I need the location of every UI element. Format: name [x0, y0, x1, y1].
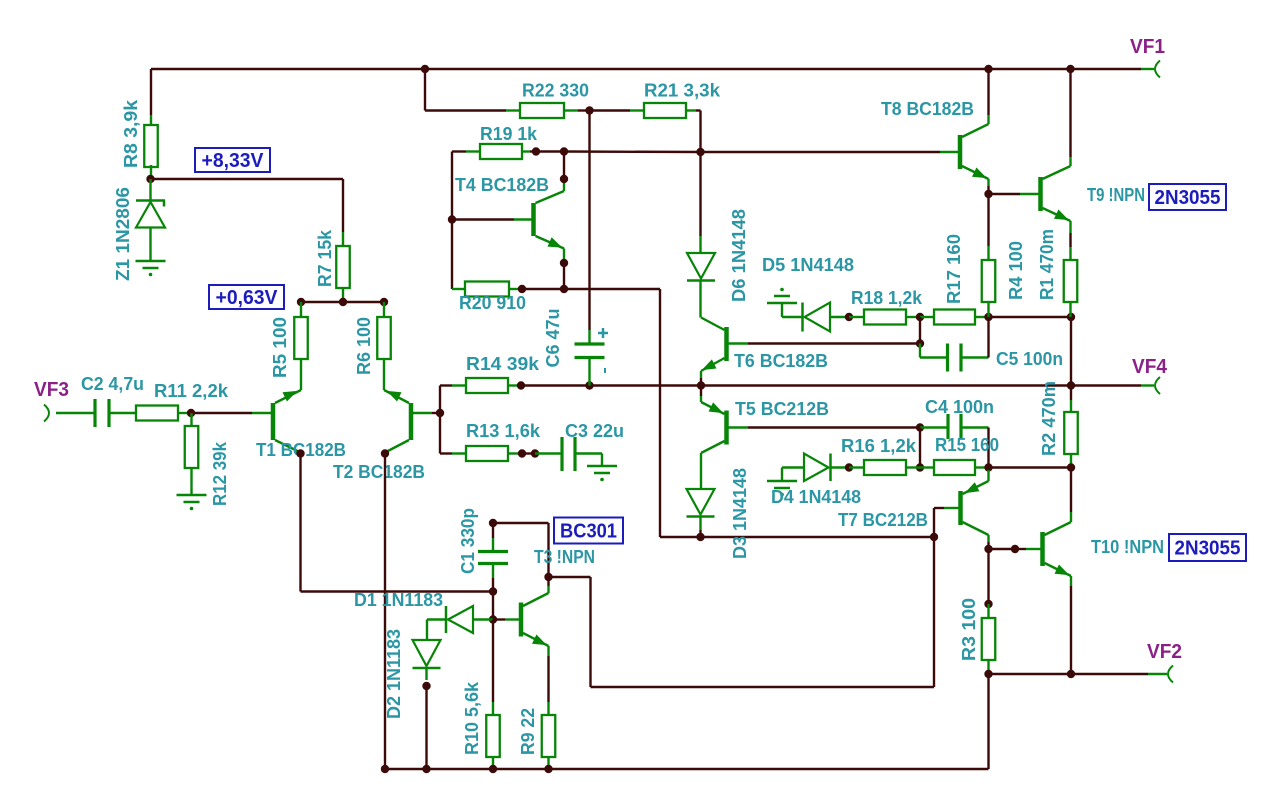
R16 [864, 460, 906, 475]
D5 pin dot [845, 313, 853, 321]
junction T2 base [436, 409, 444, 417]
R7 [336, 246, 350, 288]
svg-text:D1 1N1183: D1 1N1183 [354, 590, 443, 610]
wire R3 column [987, 549, 989, 604]
wire to T1 base [191, 412, 252, 414]
D4 ground [767, 480, 797, 483]
wire R21 corner down [696, 109, 701, 111]
svg-text:C3 22u: C3 22u [565, 421, 624, 441]
wire R4 column from T8/T9 node [987, 194, 989, 246]
junction D2 bottom row [422, 765, 430, 773]
T9 collector lead [1069, 157, 1071, 166]
svg-text:VF1: VF1 [1130, 36, 1165, 58]
junction D3 bottom [696, 533, 704, 541]
capacitor C6 47u electrolytic [575, 342, 605, 345]
svg-text:R3 100: R3 100 [959, 598, 979, 661]
T5 base junction C4 [916, 423, 924, 431]
capacitor C1 330p [489, 519, 497, 527]
junction D1 T3 base R10 [489, 615, 497, 623]
R12 ground [177, 494, 207, 497]
R19 [480, 144, 522, 159]
svg-text:T6 BC182B: T6 BC182B [734, 351, 828, 371]
R4 [982, 260, 996, 302]
T6 base wire [748, 342, 920, 344]
T10 emitter lead [1070, 576, 1072, 586]
R1 [1064, 260, 1078, 302]
svg-text:R15 160: R15 160 [935, 435, 999, 455]
D2 bottom pin dot [422, 682, 430, 690]
wire to R21 [590, 109, 631, 111]
svg-text:R5 100: R5 100 [270, 317, 290, 378]
svg-text:2N3055: 2N3055 [1155, 187, 1221, 209]
D4 pin dot [845, 463, 853, 471]
junction T2 collector [381, 449, 389, 457]
label box BC301 [554, 518, 623, 544]
transistor T6 BC182B [724, 327, 729, 361]
R12 39k [185, 426, 199, 468]
svg-text:R12 39k: R12 39k [210, 441, 230, 506]
R5 [294, 317, 308, 359]
T3 emitter lead to R9 [547, 646, 549, 656]
R5 bottom lead to T1 emitter [300, 358, 302, 390]
wire T5 base column down [919, 428, 921, 468]
C3 ground [587, 465, 617, 468]
VF3 input terminal [44, 405, 49, 422]
svg-text:T3 !NPN: T3 !NPN [534, 547, 595, 567]
svg-text:R7 15k: R7 15k [315, 229, 335, 287]
svg-text:T10 !NPN: T10 !NPN [1091, 537, 1164, 557]
junction R9 bottom [544, 765, 552, 773]
T5 base wire [748, 426, 920, 428]
wire R17 row to R1 column [989, 316, 1072, 318]
wire T2 base down to R13 row [439, 413, 441, 454]
svg-text:D4 1N4148: D4 1N4148 [771, 487, 861, 507]
junction R20 right pins [518, 285, 526, 293]
R22 [520, 103, 564, 118]
junction R6 rail [380, 298, 388, 306]
junction R10 bottom [489, 765, 497, 773]
svg-text:R1 470m: R1 470m [1037, 229, 1057, 300]
wire R13 to C3 [535, 452, 562, 454]
svg-text:R6 100: R6 100 [354, 317, 374, 375]
R11 right lead [178, 412, 191, 414]
wire to R19 [452, 150, 466, 152]
junction T3 collector node [544, 573, 552, 581]
junction T7 base column [930, 533, 938, 541]
wire T9 base [989, 193, 1021, 195]
D2 body [413, 640, 441, 666]
svg-text:D6 1N4148: D6 1N4148 [729, 209, 749, 302]
diode D3 1N4148 [687, 489, 715, 515]
T4 collector lead [563, 179, 565, 191]
C6 minus sign [604, 368, 606, 373]
svg-text:T2 BC182B: T2 BC182B [333, 462, 425, 482]
wire D1 corner down to D2 [426, 620, 428, 641]
junction R3 top [984, 600, 992, 608]
T7 base column down to loop [933, 537, 935, 687]
svg-text:R2 470m: R2 470m [1039, 381, 1059, 456]
svg-text:D2 1N1183: D2 1N1183 [384, 629, 404, 719]
T4 collector pin dot [560, 175, 568, 183]
transistor T9 !NPN 2N3055 [1038, 177, 1043, 211]
R8 bottom lead [150, 165, 152, 179]
wire T2 collector down [384, 454, 386, 770]
VF1 terminal [1155, 61, 1160, 78]
transistor T4 BC182B [531, 203, 536, 236]
junction R5 rail [297, 298, 305, 306]
ground symbol below D4 [782, 466, 803, 468]
svg-text:VF4: VF4 [1132, 356, 1168, 378]
T7 emitter lead [987, 470, 989, 481]
R12 bottom lead [190, 467, 192, 495]
R20 [465, 282, 509, 297]
Z1 ground [136, 260, 166, 263]
wire bottom row up to VF2 row [987, 674, 989, 769]
R18 [864, 310, 906, 325]
R10 [486, 715, 500, 757]
rail +0,63V [301, 301, 384, 303]
transistor T8 BC182B [958, 135, 963, 169]
wire T1 collector down [299, 454, 301, 592]
wire +8,33V down to R7 [342, 179, 344, 232]
C6 plus sign [598, 332, 608, 335]
left vertical wire R19/R20 [451, 152, 453, 290]
wire junction down from rail to R22 [424, 69, 426, 111]
wire T2 base up to R14 row [439, 386, 441, 414]
svg-text:R17 160: R17 160 [944, 234, 964, 304]
junction R19 right pins [532, 147, 540, 155]
wire C2 to R11 [109, 412, 136, 414]
T8 collector lead [987, 115, 989, 124]
wire to R14 [440, 384, 452, 386]
zener diode Z1 1N2806 [149, 179, 151, 200]
T4 emitter lead [563, 249, 565, 264]
svg-text:2N3055: 2N3055 [1175, 538, 1241, 560]
junction T1 collector [296, 449, 304, 457]
svg-text:C1 330p: C1 330p [458, 508, 478, 574]
T6 emitter lead [700, 371, 702, 378]
junction R3 bottom VF2 [984, 670, 992, 678]
diode D1 1N1183 (cathode left) [427, 618, 445, 620]
base row wire to T8 [564, 150, 701, 153]
wire T10 base [989, 548, 1016, 550]
top rail junctions right [984, 65, 992, 73]
T8 emitter lead [987, 179, 989, 186]
wire C3 to ground [575, 452, 602, 454]
R14 [466, 378, 508, 393]
junction R16 R15 [916, 463, 924, 471]
svg-text:R14 39k: R14 39k [466, 354, 540, 374]
capacitor C3 22u [560, 437, 563, 471]
corner junction bottom left [381, 765, 389, 773]
junction R7 rail [339, 298, 347, 306]
svg-text:D3 1N4148: D3 1N4148 [730, 468, 750, 559]
transistor T1 BC182B [271, 403, 276, 440]
diode D4 1N4148 (cathode right) [804, 454, 829, 482]
T10 base pin dot [1011, 545, 1019, 553]
svg-text:D5 1N4148: D5 1N4148 [762, 255, 854, 275]
voltage label +0,63V [209, 285, 284, 309]
VF4 terminal [1155, 377, 1160, 394]
T4 emitter pin dot [560, 259, 568, 267]
resistor R12 [190, 413, 192, 426]
junction R1 bottom row [1067, 313, 1075, 321]
VF4 net wire [521, 384, 1141, 386]
R9 [542, 715, 556, 757]
capacitor C5 100n [946, 344, 949, 372]
junction T6 base C5 tap [916, 339, 924, 347]
R17 [934, 310, 975, 325]
svg-text:Z1 1N2806: Z1 1N2806 [113, 187, 133, 281]
wire C5 loop [919, 317, 921, 344]
VF2 terminal [1168, 666, 1173, 683]
capacitor C2 4,7u [93, 399, 96, 427]
T3 collector lead [547, 586, 549, 593]
wire C6 column [588, 111, 590, 331]
VF2 net wire [989, 673, 1149, 675]
junction R13 right pin dots [518, 449, 526, 457]
R3 [982, 618, 996, 660]
transistor T3 !NPN BC301 [519, 603, 524, 637]
R6 [377, 317, 391, 359]
svg-text:R20 910: R20 910 [459, 293, 526, 313]
svg-text:BC301: BC301 [560, 521, 617, 543]
svg-text:R22 330: R22 330 [522, 81, 589, 101]
R11 2,2k [136, 406, 178, 421]
transistor T7 BC212B [958, 491, 963, 525]
wire to R13 [440, 452, 452, 454]
junction R22 R21 C6 [585, 106, 593, 114]
terminal VF2 [1148, 673, 1167, 675]
junction R15 right T7 emitter [984, 463, 992, 471]
svg-text:C2 4,7u: C2 4,7u [81, 374, 144, 394]
svg-text:T8 BC182B: T8 BC182B [881, 99, 974, 119]
svg-text:VF2: VF2 [1147, 641, 1182, 663]
wire R10 column [492, 620, 494, 703]
junction R11 R12 T1 [187, 409, 195, 417]
junction T4 base tap [448, 215, 456, 223]
wire rail to R8 [150, 69, 152, 115]
junction C6 bottom [585, 381, 593, 389]
svg-text:R19 1k: R19 1k [480, 124, 538, 144]
voltage label +8,33V [195, 148, 270, 172]
svg-text:C5 100n: C5 100n [996, 349, 1063, 369]
transistor T10 !NPN 2N3055 [1040, 532, 1045, 566]
svg-text:C4 100n: C4 100n [925, 397, 994, 417]
svg-text:+8,33V: +8,33V [202, 150, 265, 172]
D6 to T6 collector [699, 281, 701, 318]
svg-text:R9 22: R9 22 [518, 708, 538, 755]
wire C4 [920, 426, 948, 428]
svg-text:T7 BC212B: T7 BC212B [838, 510, 928, 530]
junction R2 bottom [1067, 463, 1075, 471]
R7 bottom lead [342, 288, 344, 302]
junction T6 T5 emitters VF4 [697, 381, 705, 389]
T7 collector lead [987, 535, 989, 542]
svg-text:C6 47u: C6 47u [543, 309, 563, 368]
svg-text:R18 1,2k: R18 1,2k [851, 288, 923, 308]
transistor T2 BC182B (mirrored) [409, 403, 414, 440]
wire R15 row to R2 bottom [989, 466, 1072, 468]
R15 [934, 460, 975, 475]
wire +8,33V horizontal [151, 178, 343, 180]
junction rail R22 [421, 65, 429, 73]
diode D5 1N4148 (cathode left) [801, 303, 804, 332]
junction R21 column base row [696, 148, 704, 156]
capacitor C4 100n [946, 414, 949, 439]
svg-text:+0,63V: +0,63V [216, 287, 279, 309]
feedback wire R20 row to right [564, 288, 660, 290]
wire to R22 [425, 109, 506, 111]
svg-text:R16 1,2k: R16 1,2k [841, 436, 917, 456]
R13 [466, 446, 508, 461]
T5 collector lead to D3 [700, 453, 702, 489]
junction R2 top VF4 [1067, 381, 1075, 389]
diode D6 1N4148 [699, 152, 701, 236]
T7 base wire [934, 507, 944, 509]
D5 ground [780, 288, 784, 292]
R2 [1064, 412, 1078, 454]
junction R17 R4 column [984, 313, 992, 321]
junction R14 right [517, 381, 525, 389]
terminal VF1 [1141, 68, 1154, 70]
svg-text:R4 100: R4 100 [1006, 241, 1026, 300]
svg-text:T4 BC182B: T4 BC182B [455, 175, 549, 195]
transistor T5 BC212B [724, 411, 729, 445]
wire R1 row down to VF4 [1070, 317, 1072, 386]
svg-text:R10 5,6k: R10 5,6k [462, 681, 482, 755]
svg-text:T5 BC212B: T5 BC212B [735, 399, 829, 419]
terminal VF4 [1141, 384, 1154, 386]
resistor R2 470m [1070, 386, 1072, 401]
node +8,33V junction [146, 175, 154, 183]
svg-text:R8 3,9k: R8 3,9k [121, 99, 141, 168]
junction T10 emitter VF2 [1067, 670, 1075, 678]
T9 emitter lead to R1 [1069, 221, 1071, 233]
R6 bottom lead to T2 emitter [383, 358, 385, 390]
T10 collector lead [1070, 512, 1072, 522]
svg-text:R13 1,6k: R13 1,6k [466, 421, 541, 441]
wire C1 top to T3 collector node [493, 522, 549, 524]
R21 [644, 103, 686, 118]
svg-text:VF3: VF3 [34, 379, 69, 401]
svg-text:R21 3,3k: R21 3,3k [644, 81, 721, 101]
svg-text:T9 !NPN: T9 !NPN [1087, 185, 1145, 205]
junction T7 collector T10 base R3 [984, 545, 992, 553]
svg-text:R11 2,2k: R11 2,2k [154, 381, 229, 401]
junction T8 emitter T9 base [984, 190, 992, 198]
wire D5 to R18 [849, 316, 864, 318]
wire to R20 [452, 288, 465, 290]
top supply rail wire [151, 68, 1141, 70]
resistor R8 3,9k body [144, 125, 158, 167]
junction C1 bottom T3 base node [489, 587, 497, 595]
junction R18 R17 [916, 313, 924, 321]
T5 emitter lead up [700, 396, 702, 402]
